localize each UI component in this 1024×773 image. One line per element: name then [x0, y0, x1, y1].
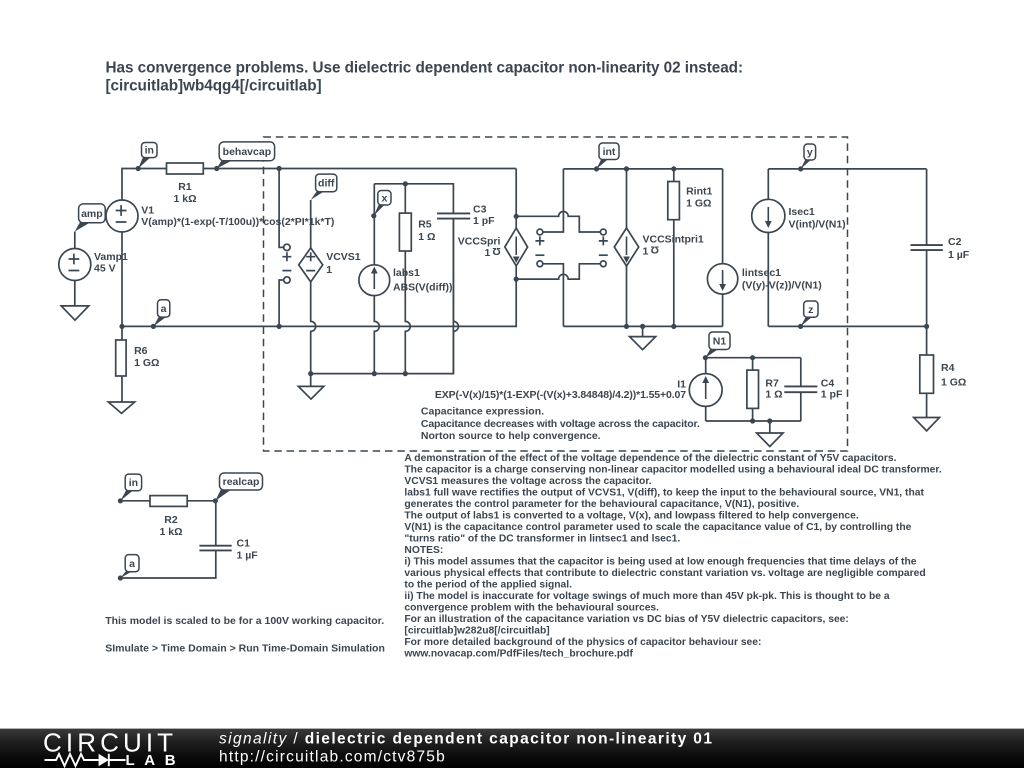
- node in2 flag: [120, 491, 133, 501]
- svg-text:Rint1: Rint1: [686, 186, 712, 198]
- wire C3 bottom with hop: [453, 219, 458, 374]
- wire behavcap rail: [203, 168, 516, 170]
- wire a rail segment B: [563, 325, 722, 327]
- current source I1: [689, 374, 722, 407]
- capacitor C4: [784, 386, 817, 392]
- svg-text:1 GΩ: 1 GΩ: [941, 377, 966, 389]
- junction realcap attach: [213, 498, 218, 503]
- junction a flag attach: [151, 324, 156, 329]
- svg-text:This model is scaled to be for: This model is scaled to be for a 100V wo…: [105, 615, 384, 627]
- wire R4 bottom: [926, 393, 928, 417]
- svg-text:in: in: [145, 145, 154, 157]
- footer black bar: [0, 729, 1024, 768]
- svg-text:For more detailed background o: For more detailed background of the phys…: [404, 637, 761, 648]
- junction R7 bottom: [750, 418, 755, 423]
- svg-text:http://circuitlab.com/ctv875b: http://circuitlab.com/ctv875b: [219, 749, 446, 766]
- svg-text:R7: R7: [765, 377, 779, 389]
- wire x rail: [374, 184, 453, 214]
- svg-text:"turns ratio" of the DC transf: "turns ratio" of the DC transformer in l…: [404, 534, 680, 545]
- svg-text:a: a: [129, 558, 135, 570]
- wire labs1 bottom with hop: [374, 296, 379, 374]
- svg-text:V1: V1: [141, 205, 154, 217]
- junction VCVS sense minus rail: [277, 324, 282, 329]
- svg-text:LAB: LAB: [126, 752, 186, 768]
- svg-text:VCVS1: VCVS1: [326, 251, 361, 263]
- wire transformer bottom link with hop: [516, 264, 600, 279]
- node in flag: [138, 158, 150, 169]
- junction behavcap attach: [214, 166, 219, 171]
- current source labs1: [359, 265, 390, 296]
- svg-text:The capacitor is a charge cons: The capacitor is a charge conserving non…: [404, 465, 941, 476]
- wire R2 to realcap corner down to C1: [187, 501, 216, 546]
- svg-text:in: in: [129, 477, 138, 489]
- svg-text:1 kΩ: 1 kΩ: [173, 193, 196, 205]
- ground below R4: [914, 418, 940, 431]
- wire diff node to VCVS1: [310, 200, 312, 248]
- wire ground rail of behav section: [311, 219, 454, 374]
- svg-text:1 pF: 1 pF: [821, 389, 843, 401]
- svg-text:Isec1: Isec1: [789, 206, 815, 218]
- junction x flag attach: [371, 213, 376, 218]
- resistor R7: [747, 370, 759, 408]
- svg-text:The output of labs1 is convert: The output of labs1 is converted to a vo…: [404, 511, 858, 522]
- wire C2 top: [926, 169, 928, 245]
- junction Rint1 int rail: [671, 166, 676, 171]
- svg-text:diff: diff: [318, 178, 335, 190]
- svg-text:Vamp1: Vamp1: [94, 251, 128, 263]
- wire R6 branch: [121, 326, 123, 402]
- svg-text:ii) The model is inaccurate fo: ii) The model is inaccurate for voltage …: [404, 591, 889, 602]
- transformer right top terminal: [600, 229, 606, 235]
- svg-text:NOTES:: NOTES:: [404, 545, 443, 556]
- wire VCVS1 sense plus branch: [279, 169, 283, 248]
- wire lintsec1 branch: [722, 169, 724, 264]
- wire Vamp1 to ground: [74, 281, 76, 306]
- junction z flag attach: [798, 324, 803, 329]
- ground below R6: [108, 402, 134, 413]
- svg-text:V(int)/V(N1): V(int)/V(N1): [789, 219, 846, 231]
- svg-text:1 µF: 1 µF: [948, 249, 970, 261]
- wire VCVS1 bottom with hop over a rail: [311, 282, 316, 374]
- wire Rint1 top: [673, 169, 675, 182]
- junction gnd rail labs1: [372, 371, 377, 376]
- svg-text:1: 1: [485, 247, 491, 259]
- junction Rint1 a rail: [671, 324, 676, 329]
- ground stub behav section: [310, 374, 312, 387]
- svg-text:(V(y)-V(z))/V(N1): (V(y)-V(z))/V(N1): [742, 280, 822, 292]
- transformer left bottom terminal: [535, 254, 544, 256]
- svg-text:V(amp)*(1-exp(-T/100u))*cos(2*: V(amp)*(1-exp(-T/100u))*cos(2*PI*1k*T): [141, 216, 334, 228]
- wire VCCSintpri1 bottom: [626, 266, 628, 326]
- svg-text:45 V: 45 V: [94, 263, 116, 275]
- node N1 flag: [705, 349, 718, 358]
- wire transformer top link with hop: [516, 211, 600, 232]
- wire VCVS1 sense minus branch: [279, 280, 283, 326]
- junction y flag attach: [798, 166, 803, 171]
- wire Rint1 bottom: [673, 220, 675, 327]
- wire C4 bottom: [800, 392, 802, 421]
- junction R7 top: [750, 355, 755, 360]
- voltage source Vamp1: [59, 249, 91, 281]
- wire I1 bottom: [705, 406, 707, 421]
- svg-text:For an illustration of the cap: For an illustration of the capacitance v…: [404, 614, 848, 625]
- wire N1 bottom rail: [706, 420, 801, 422]
- svg-text:V(N1) is the capacitance contr: V(N1) is the capacitance control paramet…: [404, 522, 911, 533]
- CircuitLab logo resistor-diode glyph: [45, 754, 126, 766]
- svg-text:[circuitlab]w282u8[/circuitlab: [circuitlab]w282u8[/circuitlab]: [404, 626, 549, 637]
- svg-text:www.novacap.com/PdfFiles/tech_: www.novacap.com/PdfFiles/tech_brochure.p…: [403, 649, 633, 660]
- wire a rail segment A: [122, 266, 516, 327]
- junction a2 attach: [118, 575, 123, 580]
- node diff flag: [311, 191, 324, 200]
- svg-text:1 pF: 1 pF: [473, 215, 495, 227]
- svg-text:1 Ω: 1 Ω: [765, 389, 782, 401]
- junction VCCSintpri1 int rail: [624, 166, 629, 171]
- svg-text:amp: amp: [81, 208, 103, 220]
- svg-text:EXP(-V(x)/15)*(1-EXP(-(V(x)+3.: EXP(-V(x)/15)*(1-EXP(-(V(x)+3.84848)/4.2…: [435, 389, 686, 401]
- wire V1 bottom to a rail: [121, 232, 123, 326]
- wire behavcap rail down to VCCSpri: [515, 169, 517, 229]
- svg-text:VCVS1 measures the voltage acr: VCVS1 measures the voltage across the ca…: [404, 476, 651, 487]
- wire left bottom terminal down to a rail segment B: [543, 264, 564, 327]
- op-amp-like dependent source VCVS1 diamond: [299, 248, 323, 282]
- svg-text:C2: C2: [948, 236, 962, 248]
- wire in2 to R2: [120, 500, 150, 502]
- svg-text:labs1: labs1: [393, 267, 420, 279]
- junction VCCSpri bottom: [514, 277, 519, 282]
- node a flag: [153, 317, 166, 326]
- svg-text:to the period of the applied s: to the period of the applied signal.: [404, 580, 572, 591]
- svg-text:1 Ω: 1 Ω: [418, 231, 435, 243]
- svg-text:behavcap: behavcap: [223, 146, 271, 158]
- resistor R5: [399, 213, 411, 251]
- ground below Vamp1: [61, 306, 89, 320]
- capacitor C2: [911, 245, 943, 250]
- svg-text:R2: R2: [164, 514, 178, 526]
- dependent source VCCSintpri1 diamond: [614, 228, 638, 266]
- resistor R1: [167, 163, 204, 174]
- svg-text:1: 1: [643, 245, 649, 257]
- svg-text:i) This model assumes that the: i) This model assumes that the capacitor…: [404, 557, 916, 568]
- node x flag: [374, 204, 385, 216]
- node a2 flag: [120, 571, 132, 578]
- ground stub N1 section: [769, 421, 771, 433]
- svg-text:a: a: [161, 303, 167, 315]
- current source Isec1: [752, 199, 785, 232]
- wire R7 top: [752, 358, 754, 370]
- junction N1 flag attach: [703, 355, 708, 360]
- svg-text:generates the control paramete: generates the control parameter for the …: [404, 499, 799, 510]
- svg-text:convergence problem with the b: convergence problem with the behavioural…: [404, 603, 659, 614]
- wire int rail: [563, 168, 722, 170]
- junction gnd rail VCVS1: [308, 371, 313, 376]
- wire int rail left end down to left top terminal: [543, 169, 564, 232]
- junction gnd rail R5: [403, 371, 408, 376]
- node realcap flag: [215, 490, 231, 501]
- wire C2 bottom: [926, 250, 928, 326]
- resistor Rint1: [668, 182, 680, 220]
- resistor R4: [920, 355, 934, 393]
- svg-text:R4: R4: [941, 362, 955, 374]
- svg-text:signality / dielectric depende: signality / dielectric dependent capacit…: [219, 730, 713, 747]
- wire R5 bottom with hop: [405, 251, 410, 374]
- svg-text:lintsec1: lintsec1: [742, 267, 781, 279]
- VCVS1 sense minus terminal: [282, 270, 291, 272]
- junction N1 ground stub: [767, 418, 772, 423]
- node z flag: [801, 317, 812, 326]
- ground below VCVS1 section: [298, 386, 324, 399]
- svg-text:z: z: [808, 304, 813, 316]
- svg-text:int: int: [603, 146, 616, 158]
- svg-text:Has convergence problems. Use: Has convergence problems. Use dielectric…: [106, 60, 744, 77]
- resistor R2: [150, 496, 187, 507]
- svg-text:1 GΩ: 1 GΩ: [134, 357, 159, 369]
- svg-text:Norton source to help converge: Norton source to help convergence.: [421, 430, 601, 442]
- junction VCCSintpri1 a rail: [624, 324, 629, 329]
- svg-text:A demonstration of the effect: A demonstration of the effect of the vol…: [404, 453, 896, 464]
- ground stub segment B: [642, 326, 644, 336]
- svg-text:1: 1: [326, 264, 332, 276]
- junction V1 R6 rail: [119, 324, 124, 329]
- svg-text:realcap: realcap: [223, 476, 260, 488]
- svg-text:C1: C1: [237, 537, 251, 549]
- transformer left top terminal: [537, 229, 543, 235]
- capacitor C3: [437, 213, 470, 218]
- node y flag: [801, 160, 811, 169]
- transformer right bottom terminal: [599, 254, 608, 256]
- node int flag: [597, 159, 609, 169]
- wire amp flag to Vamp1: [74, 232, 76, 249]
- svg-text:SImulate > Time Domain > Run T: SImulate > Time Domain > Run Time-Domain…: [105, 643, 385, 655]
- svg-text:R6: R6: [134, 345, 148, 357]
- dependent source VCCSpri diamond: [505, 228, 528, 266]
- resistor R6: [116, 340, 126, 376]
- svg-text:R1: R1: [178, 181, 192, 193]
- svg-text:[circuitlab]wb4qg4[/circuitlab: [circuitlab]wb4qg4[/circuitlab]: [106, 78, 322, 95]
- wire lintsec1 bottom: [722, 294, 724, 326]
- wire Isec1 bottom to z rail: [767, 233, 769, 327]
- wire N1 top rail: [706, 357, 801, 359]
- wire V1 top to in node: [122, 169, 167, 201]
- junction in flag attach: [136, 166, 141, 171]
- wire Isec1 top: [767, 169, 769, 199]
- svg-text:C4: C4: [821, 377, 835, 389]
- svg-text:Capacitance decreases with vol: Capacitance decreases with voltage acros…: [421, 418, 700, 430]
- junction ground stub a rail: [640, 324, 645, 329]
- node amp flag: [75, 223, 90, 232]
- junction R5 x rail: [403, 181, 408, 186]
- dashed behavioural-capacitor boundary box: [264, 137, 848, 451]
- wire labs1 top branch: [373, 184, 375, 265]
- svg-text:y: y: [807, 147, 813, 159]
- svg-text:Capacitance expression.: Capacitance expression.: [421, 406, 544, 418]
- VCVS1 sense plus terminal: [284, 244, 290, 250]
- svg-text:R5: R5: [418, 219, 432, 231]
- description text block: [403, 453, 941, 660]
- wire R5 top: [404, 184, 406, 213]
- wire I1 top: [705, 358, 707, 374]
- wire R4 top: [926, 326, 928, 355]
- svg-text:1 kΩ: 1 kΩ: [159, 526, 182, 538]
- ground below N1 section: [757, 433, 783, 447]
- wire y rail: [768, 168, 926, 170]
- current source Iintsec1: [707, 264, 737, 294]
- capacitor C1: [199, 546, 231, 551]
- svg-text:labs1 full wave rectifies the: labs1 full wave rectifies the output of …: [404, 488, 924, 499]
- svg-text:1 GΩ: 1 GΩ: [686, 198, 711, 210]
- svg-text:N1: N1: [713, 335, 727, 347]
- node behavcap flag: [217, 161, 232, 169]
- junction int flag attach: [594, 166, 599, 171]
- wire R7 bottom: [752, 408, 754, 421]
- svg-text:ABS(V(diff)): ABS(V(diff)): [393, 282, 452, 294]
- wire C1 bottom to a2: [120, 550, 215, 578]
- svg-text:various physical effects that: various physical effects that contribute…: [404, 568, 925, 579]
- wire z rail segment C: [768, 325, 926, 327]
- ground below segment B: [630, 337, 656, 350]
- wire C4 top: [800, 358, 802, 387]
- junction C2 R4 rail: [924, 324, 929, 329]
- svg-text:C3: C3: [473, 204, 487, 216]
- svg-text:Ω: Ω: [492, 245, 500, 257]
- svg-text:Ω: Ω: [651, 244, 659, 256]
- wire VCCSintpri1 top: [626, 169, 628, 228]
- svg-text:x: x: [381, 192, 387, 204]
- voltage source V1: [106, 200, 138, 232]
- svg-text:1 µF: 1 µF: [237, 550, 259, 562]
- junction in2 attach: [118, 498, 123, 503]
- junction VCVS sense branch top: [277, 166, 282, 171]
- junction VCCSpri top: [514, 214, 519, 219]
